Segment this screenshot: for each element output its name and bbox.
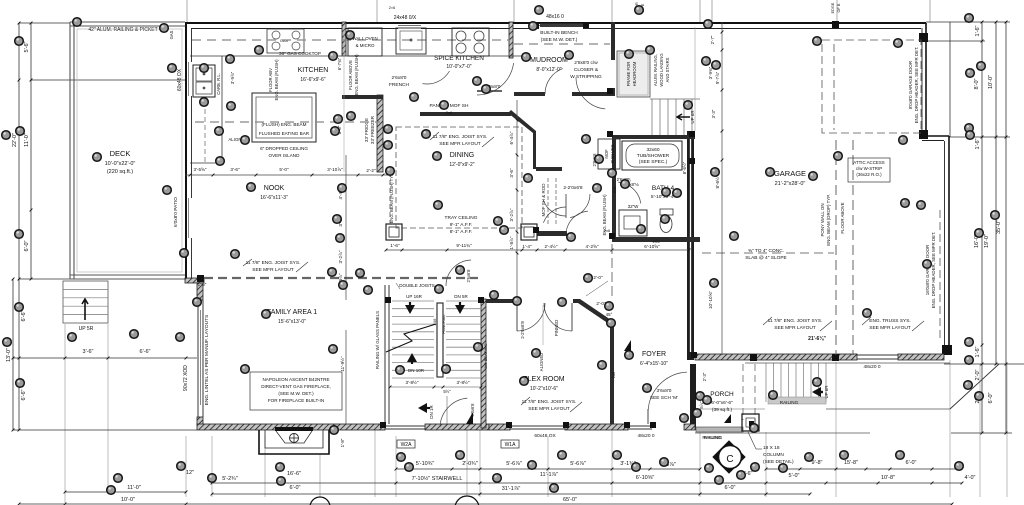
kitchen spice divider wall — [342, 22, 346, 56]
family dim col — [338, 155, 346, 424]
svg-text:48x20 0: 48x20 0 — [863, 364, 880, 370]
exterior wall south — [197, 364, 696, 430]
bath closet shelves — [592, 139, 620, 169]
kitchen sink — [193, 65, 221, 97]
svg-text:16'0x8'0 GARAGE DOOR: 16'0x8'0 GARAGE DOOR — [925, 245, 930, 295]
svg-text:6'-10⅝": 6'-10⅝" — [644, 244, 660, 249]
kitchen dining divider (fridge) — [342, 54, 383, 172]
svg-text:BUILT-IN BENCH: BUILT-IN BENCH — [540, 30, 578, 36]
svg-text:10'-10⅝": 10'-10⅝" — [708, 291, 713, 309]
svg-text:21'-6⅛": 21'-6⅛" — [808, 336, 826, 342]
svg-text:DOUBLE JOISTS: DOUBLE JOISTS — [399, 283, 435, 288]
svg-text:3'-6": 3'-6" — [509, 168, 514, 178]
svg-text:OF B: OF B — [837, 3, 841, 12]
svg-text:48x20 0: 48x20 0 — [637, 433, 654, 439]
svg-text:2-2'6x6'8: 2-2'6x6'8 — [520, 321, 525, 339]
dining columns — [386, 224, 537, 240]
svg-text:3'-6": 3'-6" — [83, 349, 94, 355]
svg-text:SEE SCH 'M': SEE SCH 'M' — [650, 395, 678, 401]
svg-text:9'-7⅞": 9'-7⅞" — [715, 71, 720, 84]
exterior wall top — [185, 14, 926, 29]
kitchen labels — [268, 59, 328, 101]
svg-text:31'-1⅞": 31'-1⅞" — [502, 486, 521, 492]
porch label — [710, 391, 734, 413]
svg-text:ENG. DROP HEADER, SEE MFR DET.: ENG. DROP HEADER, SEE MFR DET. — [914, 47, 919, 124]
exterior wall west family — [183, 278, 210, 425]
svg-text:3'-6": 3'-6" — [230, 167, 240, 172]
garage label — [774, 169, 806, 187]
svg-text:DECK: DECK — [110, 149, 131, 158]
dining label — [430, 132, 494, 168]
garage vert dim — [708, 175, 720, 309]
svg-text:1'-6": 1'-6" — [975, 346, 981, 357]
svg-text:2'-2": 2'-2" — [366, 168, 376, 173]
stairs center — [386, 283, 482, 424]
svg-text:90x72 XOD: 90x72 XOD — [183, 365, 189, 391]
svg-text:(SEE SPEC.): (SEE SPEC.) — [639, 159, 668, 165]
svg-text:2'-7": 2'-7" — [710, 35, 715, 44]
svg-text:6'-0": 6'-0" — [725, 485, 736, 491]
svg-text:SEE MFR LAYOUT: SEE MFR LAYOUT — [774, 325, 816, 331]
svg-text:5'-10¾": 5'-10¾" — [416, 461, 435, 467]
svg-text:W2A: W2A — [401, 442, 413, 448]
svg-text:19'-0": 19'-0" — [984, 234, 990, 248]
svg-text:2'-0": 2'-0" — [593, 275, 603, 280]
svg-text:3'0x6'8: 3'0x6'8 — [470, 403, 475, 417]
svg-text:c/w W-STRIP: c/w W-STRIP — [856, 166, 882, 171]
svg-text:2'6x8'0: 2'6x8'0 — [392, 75, 407, 81]
svg-text:EDGE: EDGE — [831, 2, 835, 13]
wall junction squares — [380, 88, 697, 428]
flex labels — [521, 305, 582, 412]
svg-text:6'-0": 6'-0" — [906, 460, 917, 466]
svg-text:6'0x8'0 PATIO: 6'0x8'0 PATIO — [173, 197, 179, 227]
svg-text:60x48 OX: 60x48 OX — [534, 433, 556, 439]
svg-text:1'-8⅞": 1'-8⅞" — [509, 236, 514, 249]
svg-text:1'-4": 1'-4" — [522, 244, 532, 249]
svg-text:FLOOR ABV: FLOOR ABV — [268, 68, 273, 92]
svg-text:35'-0": 35'-0" — [996, 220, 1002, 234]
svg-text:FOR FIREPLACE BUILT-IN: FOR FIREPLACE BUILT-IN — [268, 398, 324, 403]
svg-text:32x60: 32x60 — [646, 147, 659, 153]
vanity — [619, 204, 647, 236]
svg-text:6'-0": 6'-0" — [988, 392, 994, 403]
pony wall dashed — [820, 140, 853, 355]
svg-text:2X6: 2X6 — [433, 319, 437, 326]
foyer closet arc — [648, 372, 687, 424]
attic access — [848, 158, 890, 182]
upper right dims — [695, 22, 723, 355]
svg-text:UP 5R: UP 5R — [79, 326, 94, 332]
svg-text:6'-0"x6'-6": 6'-0"x6'-6" — [711, 400, 733, 406]
nook right dims — [337, 30, 687, 174]
svg-text:2x6 BEARING: 2x6 BEARING — [483, 343, 488, 369]
svg-text:11'-9½": 11'-9½" — [339, 356, 345, 372]
foyer dims — [699, 372, 707, 408]
stairwell west wall — [481, 299, 488, 428]
toilet — [660, 209, 673, 233]
nook label — [260, 185, 288, 201]
railing glass panels — [375, 285, 389, 424]
porch railing left — [696, 427, 743, 440]
eng beam flush hall — [602, 194, 607, 236]
svg-text:3'-8½": 3'-8½" — [457, 379, 470, 385]
svg-text:1'-6": 1'-6" — [975, 25, 981, 36]
svg-text:ENG. BEAM (FLUSH): ENG. BEAM (FLUSH) — [274, 59, 279, 101]
porch diag edge — [950, 364, 999, 409]
deck label — [105, 149, 136, 175]
svg-text:13'-0": 13'-0" — [6, 348, 12, 362]
svg-text:FLOOR ABOVE: FLOOR ABOVE — [840, 202, 845, 233]
svg-text:16'-6"x11'-3": 16'-6"x11'-3" — [260, 195, 288, 201]
dining tray ceiling dashed — [396, 127, 522, 235]
svg-text:1'-6": 1'-6" — [390, 243, 400, 248]
svg-text:18 X 18: 18 X 18 — [763, 445, 780, 451]
svg-text:6'-4⅞": 6'-4⅞" — [509, 131, 514, 144]
svg-text:ENG. BEAM (DROP) TYP.: ENG. BEAM (DROP) TYP. — [826, 194, 831, 246]
svg-text:2X6: 2X6 — [652, 239, 660, 244]
svg-text:AND STAIRS: AND STAIRS — [665, 57, 670, 82]
svg-text:6'-6": 6'-6" — [21, 389, 27, 400]
svg-text:6'-0": 6'-0" — [24, 240, 30, 251]
svg-text:24x48 0/X: 24x48 0/X — [394, 15, 417, 21]
svg-text:MOF: MOF — [604, 149, 609, 159]
svg-text:32"W: 32"W — [628, 204, 640, 209]
svg-text:2×6: 2×6 — [389, 6, 395, 10]
svg-text:ATTIC ACCESS: ATTIC ACCESS — [853, 160, 884, 165]
svg-text:3'-5⅝": 3'-5⅝" — [194, 167, 207, 172]
wall oven micro — [348, 28, 382, 56]
spice kitchen label — [389, 55, 502, 91]
svg-text:21'-2"x28'-0": 21'-2"x28'-0" — [775, 181, 806, 187]
stairs up6r top — [650, 99, 700, 135]
svg-text:DIRECT-VENT GAS FIREPLACE,: DIRECT-VENT GAS FIREPLACE, — [261, 384, 331, 389]
svg-text:3'-9⅞": 3'-9⅞" — [230, 71, 235, 84]
svg-text:W1A: W1A — [505, 442, 517, 448]
spice stove — [452, 28, 489, 56]
svg-text:6'-4"x15'-10": 6'-4"x15'-10" — [640, 361, 668, 367]
svg-text:GAS: GAS — [169, 30, 174, 39]
svg-text:1'-6": 1'-6" — [975, 138, 981, 149]
top edge labels — [389, 2, 841, 14]
svg-text:3'-2⅞": 3'-2⅞" — [338, 250, 343, 263]
svg-text:SLAB @ 4" SLOPE: SLAB @ 4" SLOPE — [745, 255, 787, 261]
svg-text:ENG. BEAM (FLUSH) TYP.: ENG. BEAM (FLUSH) TYP. — [389, 173, 394, 224]
svg-text:(SEE M.W. DET.): (SEE M.W. DET.) — [278, 391, 314, 396]
hall south wall / dining — [537, 231, 567, 236]
svg-text:FOYER: FOYER — [642, 351, 666, 358]
svg-text:ENG. DROP HEADER, SEE MFR DET.: ENG. DROP HEADER, SEE MFR DET. — [931, 232, 936, 309]
svg-text:5'-6": 5'-6" — [24, 41, 30, 52]
mudroom labels — [530, 22, 602, 80]
svg-text:(220 sq.ft.): (220 sq.ft.) — [107, 169, 133, 175]
svg-text:SEE MFR LAYOUT: SEE MFR LAYOUT — [439, 141, 481, 147]
svg-text:48x16 0: 48x16 0 — [546, 14, 564, 20]
svg-text:ENG. TRUSS SYS.: ENG. TRUSS SYS. — [869, 318, 911, 324]
svg-text:10'-0"x22'-0": 10'-0"x22'-0" — [105, 161, 136, 167]
svg-text:RAILING: RAILING — [704, 435, 723, 440]
svg-text:6'-7¾": 6'-7¾" — [337, 57, 342, 70]
svg-text:FLEX ROOM: FLEX ROOM — [523, 376, 564, 383]
svg-text:(36x22 R.O.): (36x22 R.O.) — [856, 172, 882, 177]
svg-text:(39 sq.ft.): (39 sq.ft.) — [712, 407, 733, 413]
svg-text:SEE MFR LAYOUT: SEE MFR LAYOUT — [869, 325, 911, 331]
mudroom south wall — [514, 69, 611, 96]
svg-text:ENG. BEAM (FLUSH): ENG. BEAM (FLUSH) — [354, 54, 359, 96]
svg-text:6'-0": 6'-0" — [290, 485, 301, 491]
svg-text:DN 10R: DN 10R — [408, 368, 425, 373]
stairwell bottom wall — [0, 0, 1, 1]
garage west wall — [687, 131, 694, 360]
svg-text:DINING: DINING — [450, 152, 475, 159]
dining west beam dashed — [389, 172, 394, 224]
svg-text:CARB. R.L.: CARB. R.L. — [216, 73, 221, 95]
svg-text:15'-8": 15'-8" — [844, 460, 858, 466]
svg-text:9'-8": 9'-8" — [812, 460, 823, 466]
svg-text:UP 6R: UP 6R — [690, 110, 695, 124]
svg-text:65'-0": 65'-0" — [563, 497, 577, 503]
svg-text:3'-10⅞": 3'-10⅞" — [327, 167, 343, 172]
svg-text:ALUM. RAILING,: ALUM. RAILING, — [653, 54, 658, 86]
garage slab note — [745, 248, 787, 261]
deck railing — [70, 22, 185, 279]
family joist dashed — [197, 259, 478, 287]
svg-text:MUDROOM: MUDROOM — [530, 57, 568, 64]
svg-text:C: C — [726, 454, 733, 465]
svg-text:2'-3": 2'-3" — [702, 372, 707, 381]
svg-text:2'8x8'0 c/w: 2'8x8'0 c/w — [574, 60, 598, 66]
svg-text:2-2'0x6'8: 2-2'0x6'8 — [563, 185, 582, 191]
svg-text:SEE MFR LAYOUT: SEE MFR LAYOUT — [528, 406, 570, 412]
garage east door16 dashed — [925, 210, 940, 338]
svg-text:SPICE KITCHEN: SPICE KITCHEN — [434, 55, 484, 62]
svg-text:1'-8": 1'-8" — [340, 438, 345, 447]
garage east wall — [919, 23, 952, 355]
svg-text:36" GAS COOKTOP: 36" GAS COOKTOP — [279, 51, 321, 56]
dining bottom dim row — [385, 243, 691, 251]
svg-text:6'-10⅝": 6'-10⅝" — [636, 475, 655, 481]
svg-text:PONY WALL ON: PONY WALL ON — [820, 203, 825, 236]
svg-text:3'6x8'0: 3'6x8'0 — [657, 388, 672, 394]
napoleon fireplace note — [250, 372, 342, 410]
svg-text:2'6x6'8: 2'6x6'8 — [466, 269, 471, 283]
svg-text:PORCH: PORCH — [710, 391, 734, 398]
dimension lines left — [6, 22, 197, 432]
hall closet — [541, 178, 583, 226]
svg-text:5'-2¾": 5'-2¾" — [222, 476, 238, 482]
svg-text:60x48 OX: 60x48 OX — [177, 68, 183, 91]
nook dim row — [185, 167, 390, 176]
svg-text:3'-2⅞": 3'-2⅞" — [509, 208, 514, 221]
svg-text:42" ALUM. RAILING & PICKET: 42" ALUM. RAILING & PICKET — [88, 27, 157, 33]
door sill triangles — [624, 340, 631, 351]
svg-text:3'-8½": 3'-8½" — [406, 379, 419, 385]
svg-text:⅜" TO 4" CONC.: ⅜" TO 4" CONC. — [748, 248, 784, 254]
svg-text:5'-6⅞": 5'-6⅞" — [570, 461, 586, 467]
svg-text:GARAGE: GARAGE — [774, 169, 806, 178]
svg-text:11 7/8" ENG. JOIST SYS.: 11 7/8" ENG. JOIST SYS. — [246, 260, 301, 266]
svg-text:10'-0"x7'-0": 10'-0"x7'-0" — [446, 64, 471, 70]
mudroom east wall — [576, 22, 615, 109]
flex north walls — [486, 275, 614, 326]
svg-text:WALL OVEN: WALL OVEN — [352, 36, 377, 41]
stairwell north door — [446, 260, 471, 286]
svg-text:2x6: 2x6 — [446, 110, 453, 115]
svg-text:SEE MFR LAYOUT: SEE MFR LAYOUT — [252, 267, 294, 273]
svg-text:SHELVES: SHELVES — [610, 144, 615, 163]
svg-text:10'-0": 10'-0" — [988, 75, 994, 89]
dash centerline x612 — [611, 244, 613, 298]
svg-text:NOOK: NOOK — [264, 185, 285, 192]
pantry walls — [420, 103, 562, 171]
svg-text:12'-0"x9'-2": 12'-0"x9'-2" — [449, 162, 474, 168]
bay window fireplace — [259, 427, 345, 454]
svg-text:2'-0": 2'-0" — [975, 369, 981, 380]
svg-text:11 7/8" ENG. JOIST SYS.: 11 7/8" ENG. JOIST SYS. — [768, 318, 823, 324]
svg-text:10'-0": 10'-0" — [121, 497, 135, 503]
deck stairs UP 5R — [63, 281, 108, 332]
svg-text:PANTRY MOF SH: PANTRY MOF SH — [430, 103, 469, 109]
svg-text:(FLUSH) ENG. BEAM: (FLUSH) ENG. BEAM — [262, 122, 307, 127]
svg-text:8'-6½": 8'-6½" — [714, 175, 720, 188]
svg-text:11'-0": 11'-0" — [24, 133, 30, 147]
svg-text:OVER ISLAND: OVER ISLAND — [269, 153, 301, 158]
svg-text:6'-6": 6'-6" — [140, 349, 151, 355]
foyer label — [640, 351, 668, 367]
svg-text:ENG. BEAM (FLUSH): ENG. BEAM (FLUSH) — [602, 194, 607, 236]
svg-text:DN 1R: DN 1R — [429, 405, 434, 419]
svg-text:15'-6"x13'-0": 15'-6"x13'-0" — [278, 319, 306, 325]
mid dim col — [509, 100, 518, 300]
column — [724, 414, 794, 465]
flex doors pinned — [517, 303, 572, 339]
svg-text:FAMILY AREA 1: FAMILY AREA 1 — [267, 309, 317, 316]
svg-text:5½": 5½" — [443, 389, 451, 394]
svg-text:2x6: 2x6 — [611, 371, 616, 378]
hall arcs — [566, 194, 660, 244]
svg-text:W.STRIPPING: W.STRIPPING — [570, 74, 602, 80]
svg-text:(SEE DETAIL): (SEE DETAIL) — [763, 459, 794, 465]
svg-text:8'-0": 8'-0" — [974, 78, 980, 89]
svg-text:9'-1" A.F.F.: 9'-1" A.F.F. — [450, 222, 473, 228]
garage door east dashed — [822, 40, 921, 133]
svg-text:ENG. LINTEL AS PER MANUF. LAYO: ENG. LINTEL AS PER MANUF. LAYOUTS — [204, 315, 210, 405]
svg-text:FLOOR ABOVE: FLOOR ABOVE — [348, 60, 353, 90]
svg-text:FRENCH: FRENCH — [389, 82, 410, 88]
tub — [622, 141, 682, 170]
svg-text:6'-6": 6'-6" — [21, 310, 27, 321]
kitchen island — [228, 93, 316, 158]
grid bubbles bottom — [310, 496, 479, 505]
family label — [267, 309, 317, 325]
flex east wall — [610, 324, 616, 424]
svg-text:5'-0": 5'-0" — [789, 473, 800, 479]
svg-text:DN 5R: DN 5R — [454, 294, 468, 299]
svg-text:MOF SH & ROD: MOF SH & ROD — [541, 183, 546, 217]
svg-text:11 7/8" ENG. JOIST SYS.: 11 7/8" ENG. JOIST SYS. — [433, 134, 488, 140]
svg-text:4'-2⅝": 4'-2⅝" — [586, 244, 599, 249]
svg-text:8'-1" A.F.F.: 8'-1" A.F.F. — [450, 229, 473, 235]
kitchen ceiling dashed — [192, 40, 610, 122]
svg-text:10'-2"x10'-6": 10'-2"x10'-6" — [530, 386, 558, 392]
svg-text:8'-6½": 8'-6½" — [682, 161, 687, 174]
svg-text:UP 16R: UP 16R — [406, 294, 422, 299]
svg-text:33' FREEZER: 33' FREEZER — [370, 115, 375, 144]
svg-text:2'-0¾": 2'-0¾" — [462, 461, 478, 467]
svg-text:2×6: 2×6 — [613, 187, 617, 193]
svg-text:10'-8": 10'-8" — [881, 475, 895, 481]
garage slab dashed edge — [702, 252, 834, 254]
window labels south — [397, 433, 722, 448]
frame for headroom — [617, 51, 670, 97]
svg-text:RAILING W/ GLASS PANELS: RAILING W/ GLASS PANELS — [375, 311, 380, 369]
svg-text:7'-10½" STAIRWELL: 7'-10½" STAIRWELL — [412, 475, 463, 482]
svg-text:5'-6⅞": 5'-6⅞" — [506, 461, 522, 467]
bath label — [623, 182, 675, 200]
kitchen counters — [190, 56, 530, 163]
dimension lines right — [926, 21, 1024, 435]
dimension rows bottom — [18, 460, 976, 505]
svg-text:HANDRAIL: HANDRAIL — [442, 314, 446, 333]
porch steps — [695, 363, 950, 433]
svg-text:FRAME FOR: FRAME FOR — [626, 62, 631, 87]
svg-text:16'-6": 16'-6" — [287, 471, 301, 477]
svg-text:1'-6": 1'-6" — [198, 282, 207, 287]
svg-text:2'-4½": 2'-4½" — [545, 243, 558, 249]
svg-text:16'-6"x9'-6": 16'-6"x9'-6" — [300, 77, 325, 83]
stairwell south door — [440, 398, 475, 427]
svg-text:TUB/SHOWER: TUB/SHOWER — [637, 153, 670, 159]
svg-text:UP 6R: UP 6R — [824, 386, 829, 399]
svg-text:KITCHEN: KITCHEN — [298, 67, 329, 74]
svg-text:COLUMN: COLUMN — [763, 452, 784, 458]
svg-text:11 7/8" ENG. JOIST SYS.: 11 7/8" ENG. JOIST SYS. — [522, 399, 577, 405]
svg-text:RAILING: RAILING — [780, 400, 799, 405]
svg-text:& MICRO: & MICRO — [356, 43, 375, 48]
svg-text:3'-3": 3'-3" — [711, 109, 716, 118]
mud dim texts — [613, 177, 631, 193]
exterior wall west (deck side) — [173, 22, 192, 278]
bath door arc — [618, 182, 641, 203]
spice mudroom divider wall — [477, 22, 514, 95]
svg-text:PINNED: PINNED — [554, 320, 559, 337]
svg-text:5'-0": 5'-0" — [279, 167, 289, 172]
svg-text:4'-0": 4'-0" — [965, 475, 976, 481]
svg-text:6" DROPPED CEILING: 6" DROPPED CEILING — [260, 146, 308, 151]
svg-text:11'-1⅞": 11'-1⅞" — [540, 472, 558, 478]
grid bubble C — [713, 441, 745, 473]
svg-text:8'0x8'0 GARAGE DOOR: 8'0x8'0 GARAGE DOOR — [908, 61, 913, 109]
svg-text:WOOD LANDING: WOOD LANDING — [659, 53, 664, 86]
svg-text:11'-0": 11'-0" — [127, 485, 141, 491]
svg-text:8'-0"x12'-0": 8'-0"x12'-0" — [536, 67, 561, 73]
spice sink — [396, 28, 426, 54]
svg-text:45°: 45° — [606, 312, 613, 317]
garage south wall — [695, 354, 944, 370]
bath4 walls — [612, 135, 700, 242]
svg-text:NAPOLEON ASCENT B42NTRE: NAPOLEON ASCENT B42NTRE — [262, 377, 329, 382]
svg-text:FLUSHED EATING BAR: FLUSHED EATING BAR — [259, 131, 310, 136]
svg-text:9'-11¾": 9'-11¾" — [456, 243, 472, 248]
svg-text:12": 12" — [186, 470, 194, 476]
garage joist notes — [763, 317, 924, 342]
svg-text:HEADROOM: HEADROOM — [632, 61, 637, 86]
svg-text:CLOSER &: CLOSER & — [574, 67, 599, 73]
svg-text:TRAY CEILING: TRAY CEILING — [445, 215, 478, 221]
svg-text:(SEE M.W. DET.): (SEE M.W. DET.) — [541, 37, 578, 43]
cooktop — [169, 29, 321, 56]
